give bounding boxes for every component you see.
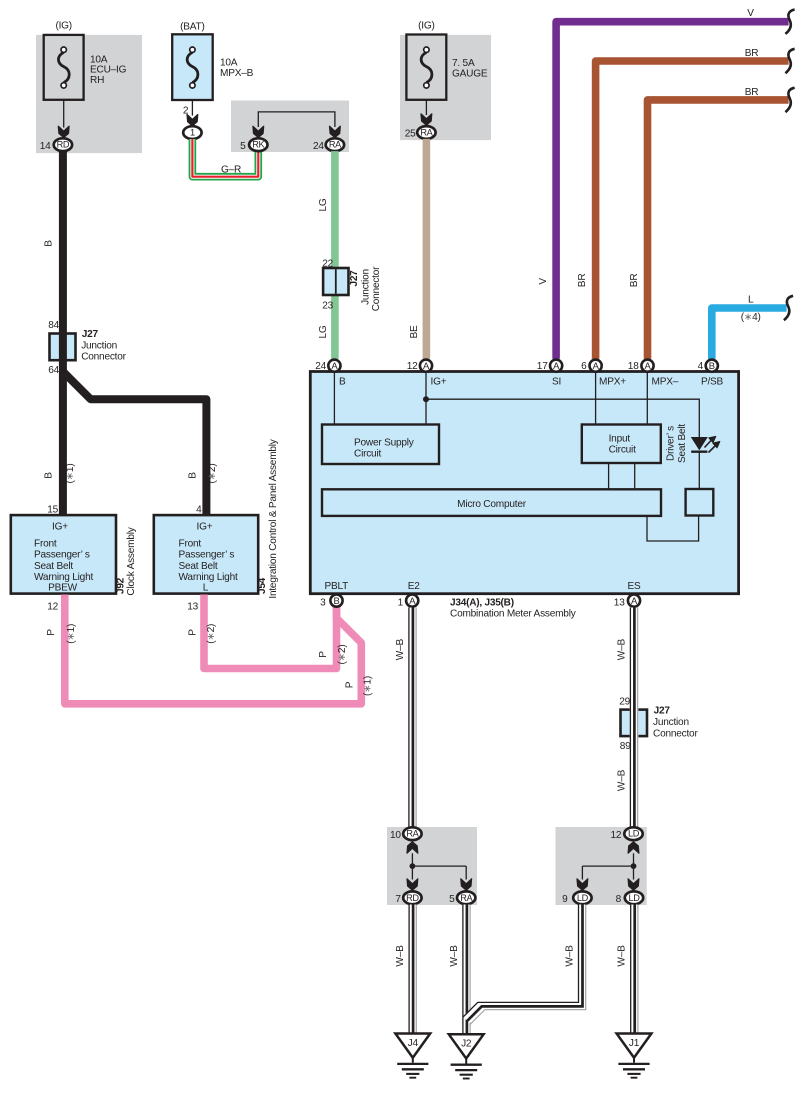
wire pin12 to power supply circuit	[425, 372, 427, 425]
svg-text:A: A	[593, 360, 600, 371]
wire BR (to pin 18 A)	[629, 87, 788, 359]
svg-text:12: 12	[611, 830, 622, 841]
svg-text:IG+: IG+	[197, 521, 213, 532]
wire input circuit to micro computer 1	[608, 463, 610, 490]
svg-text:25: 25	[405, 128, 416, 139]
wire fuse1 to pin 14	[58, 100, 69, 138]
svg-text:RA: RA	[406, 829, 419, 839]
pin 1	[183, 126, 201, 139]
combination meter assembly J34(A) J35(B)	[310, 372, 738, 594]
resistor box	[686, 489, 714, 516]
svg-text:P: P	[344, 681, 355, 688]
svg-text:W–B: W–B	[395, 945, 406, 967]
svg-text:8: 8	[616, 894, 622, 905]
pin 4 B	[698, 360, 718, 373]
pin 12 A	[407, 360, 432, 373]
svg-text:10A: 10A	[220, 58, 238, 69]
svg-text:W–B: W–B	[565, 945, 576, 967]
svg-text:MPX+: MPX+	[599, 376, 626, 387]
pin 24 A	[315, 360, 340, 373]
svg-text:(∗2): (∗2)	[207, 464, 218, 484]
svg-text:RK: RK	[252, 140, 265, 150]
svg-text:P: P	[46, 629, 57, 636]
pin 14 RD	[40, 138, 72, 152]
wire W-B (pin 5 to ground J2)	[449, 905, 470, 1035]
svg-text:LG: LG	[318, 198, 329, 211]
fuse ECU-IG RH 10A	[44, 21, 127, 100]
svg-text:RA: RA	[329, 140, 342, 150]
wire P (*2) (J54 pin 13 to PBLT)	[188, 595, 349, 669]
wire pin12 to split	[577, 842, 639, 890]
svg-text:Front: Front	[34, 538, 57, 549]
svg-text:4: 4	[196, 504, 202, 515]
wire input circuit to micro computer 2	[634, 463, 636, 490]
svg-text:14: 14	[40, 141, 51, 152]
svg-text:Warning Light: Warning Light	[34, 572, 93, 583]
svg-text:RA: RA	[420, 128, 433, 138]
svg-text:Connector: Connector	[81, 352, 126, 363]
wire fuse3 to pin 25	[421, 100, 432, 125]
wire W-B (E2 to pin 10)	[395, 608, 416, 827]
svg-text:10: 10	[390, 830, 401, 841]
integration control and panel assembly J54	[154, 438, 279, 598]
svg-text:(∗1): (∗1)	[65, 464, 76, 484]
svg-text:MPX–B: MPX–B	[220, 68, 254, 79]
wire L (*4) (to pin 4 B)	[712, 295, 787, 359]
junction block shading (LD relay block lower right)	[556, 827, 647, 905]
svg-text:Seat Belt: Seat Belt	[34, 561, 73, 572]
node junction dot IG+	[423, 396, 429, 402]
svg-text:L: L	[203, 583, 209, 594]
break symbol L	[784, 296, 793, 320]
node pin 15 label	[47, 504, 58, 515]
svg-text:6: 6	[581, 361, 587, 372]
svg-text:7: 7	[395, 894, 401, 905]
junction block shading (RK/RA connector)	[231, 101, 349, 153]
svg-text:Seat Belt: Seat Belt	[677, 424, 688, 463]
wire V (to pin 17 A)	[538, 8, 789, 359]
wire W-B (ES to pin 12 LD)	[617, 608, 638, 827]
svg-text:89: 89	[620, 741, 631, 752]
svg-text:LG: LG	[318, 325, 329, 338]
svg-text:Passenger’ s: Passenger’ s	[34, 550, 90, 561]
svg-text:SI: SI	[552, 376, 561, 387]
svg-text:A: A	[423, 360, 430, 371]
svg-text:P: P	[188, 629, 199, 636]
junction block shading (RA/RD relay block lower left)	[387, 827, 477, 905]
svg-text:13: 13	[614, 597, 625, 608]
svg-text:(∗2): (∗2)	[337, 645, 348, 665]
svg-text:17: 17	[537, 361, 548, 372]
node pin 4 label	[196, 504, 202, 515]
clock assembly J92	[11, 515, 137, 595]
svg-text:9: 9	[562, 894, 568, 905]
svg-text:P/SB: P/SB	[701, 376, 724, 387]
pin 17 A	[537, 360, 562, 373]
svg-text:5: 5	[449, 894, 455, 905]
wire W-B (pin 7 to ground J4)	[395, 905, 416, 1034]
svg-text:A: A	[409, 595, 416, 606]
svg-text:W–B: W–B	[449, 945, 460, 967]
svg-text:1: 1	[190, 128, 195, 138]
junction block shading (ECU-IG fuse)	[36, 35, 142, 153]
svg-text:E2: E2	[408, 581, 421, 592]
break symbol BR2	[785, 88, 794, 112]
break symbol BR1	[785, 49, 794, 73]
svg-text:7. 5A: 7. 5A	[452, 58, 475, 69]
svg-text:A: A	[644, 360, 651, 371]
svg-text:Driver’ s: Driver’ s	[665, 426, 676, 461]
wire pin6 to input circuit	[595, 372, 597, 425]
svg-text:A: A	[553, 360, 560, 371]
pin 13 A	[614, 595, 640, 609]
LED driver's seat belt warning light	[665, 424, 720, 463]
pin 10 RA	[390, 827, 422, 841]
svg-text:PBLT: PBLT	[324, 581, 348, 592]
wire fuse2 to pin 1	[183, 100, 198, 126]
svg-text:J27: J27	[349, 270, 360, 287]
svg-text:J27: J27	[82, 329, 99, 340]
junction connector J27 (84/64)	[48, 320, 126, 376]
svg-text:12: 12	[407, 361, 418, 372]
svg-text:A: A	[631, 595, 638, 606]
svg-text:3: 3	[320, 597, 326, 608]
svg-text:BE: BE	[409, 325, 420, 339]
svg-text:J27: J27	[654, 706, 671, 717]
svg-text:Warning Light: Warning Light	[179, 572, 238, 583]
wire B (pin 14 to J92 pin 15)	[44, 151, 76, 515]
ground J4	[395, 1034, 430, 1078]
svg-text:Combination Meter Assembly: Combination Meter Assembly	[450, 609, 577, 620]
svg-text:W–B: W–B	[617, 945, 628, 967]
svg-text:Front: Front	[179, 538, 202, 549]
svg-text:RD: RD	[57, 140, 70, 150]
svg-text:Connector: Connector	[371, 266, 382, 311]
wire pin18 to input circuit	[646, 372, 648, 425]
input circuit box	[582, 425, 661, 464]
svg-text:Junction: Junction	[361, 269, 372, 305]
node pin 13 label	[187, 602, 198, 613]
wire BR (to pin 6 A)	[577, 48, 788, 359]
svg-text:BR: BR	[745, 48, 759, 59]
svg-text:Seat Belt: Seat Belt	[179, 561, 218, 572]
wire P (*1) (J92 pin 12 to PBLT)	[46, 595, 374, 704]
svg-text:L: L	[748, 295, 754, 306]
svg-text:22: 22	[322, 258, 333, 269]
svg-text:PBEW: PBEW	[48, 583, 78, 594]
svg-text:LD: LD	[629, 893, 641, 903]
micro computer box	[322, 489, 661, 516]
wire B branch (to J54 pin 4)	[63, 372, 218, 516]
svg-text:Micro Computer: Micro Computer	[457, 499, 527, 510]
svg-text:(∗4): (∗4)	[741, 312, 761, 323]
svg-text:G–R: G–R	[221, 165, 241, 176]
junction connector J27 (22/23)	[322, 258, 382, 311]
power supply circuit box	[322, 425, 439, 465]
svg-text:(BAT): (BAT)	[180, 22, 205, 33]
svg-text:B: B	[44, 472, 55, 479]
svg-text:BR: BR	[577, 274, 588, 288]
svg-text:Power Supply: Power Supply	[354, 437, 415, 448]
fuse MPX-B 10A	[172, 22, 253, 100]
svg-text:IG+: IG+	[431, 376, 447, 387]
junction connector J27 (29/89)	[619, 696, 698, 752]
svg-text:BR: BR	[629, 274, 640, 288]
svg-text:13: 13	[187, 602, 198, 613]
svg-text:84: 84	[48, 320, 59, 331]
svg-text:Passenger’ s: Passenger’ s	[179, 550, 235, 561]
svg-text:J4: J4	[408, 1038, 419, 1049]
ground J2	[449, 1034, 484, 1078]
svg-text:J34(A), J35(B): J34(A), J35(B)	[450, 597, 514, 608]
pin 25 RA	[405, 126, 436, 139]
svg-text:(∗1): (∗1)	[66, 624, 77, 644]
svg-text:LD: LD	[577, 893, 589, 903]
svg-text:P: P	[318, 651, 329, 658]
svg-text:J1: J1	[629, 1038, 640, 1049]
wire IG+ to LED anode	[426, 399, 699, 437]
wire bracket RK to RA	[253, 112, 340, 138]
svg-text:(IG): (IG)	[55, 21, 72, 32]
svg-text:GAUGE: GAUGE	[452, 69, 488, 80]
pin 12 LD	[611, 827, 643, 841]
pin 18 A	[628, 360, 654, 373]
svg-text:1: 1	[398, 597, 404, 608]
svg-text:Input: Input	[609, 434, 631, 445]
svg-text:A: A	[331, 360, 338, 371]
svg-text:Junction: Junction	[81, 340, 117, 351]
pin 8 LD	[616, 891, 644, 905]
wire G-R (MPX-B to RK)	[192, 139, 258, 177]
pin 6 A	[581, 360, 602, 373]
svg-text:W–B: W–B	[617, 639, 628, 661]
svg-text:Integration Control & Panel As: Integration Control & Panel Assembly	[268, 438, 279, 598]
svg-text:5: 5	[240, 141, 246, 152]
wire W-B (pin 9 to ground J2)	[463, 905, 586, 1025]
svg-text:V: V	[538, 278, 549, 285]
svg-text:IG+: IG+	[52, 521, 68, 532]
svg-text:LD: LD	[628, 829, 640, 839]
pin 9 LD	[562, 891, 592, 905]
svg-text:BR: BR	[745, 87, 759, 98]
svg-text:29: 29	[619, 696, 630, 707]
svg-text:J54: J54	[257, 577, 268, 594]
svg-text:B: B	[44, 240, 55, 247]
svg-text:B: B	[339, 376, 346, 387]
wire pin10 to split	[407, 842, 472, 890]
svg-text:W–B: W–B	[395, 639, 406, 661]
svg-text:B: B	[188, 472, 199, 479]
svg-text:MPX–: MPX–	[652, 376, 679, 387]
svg-text:Connector: Connector	[653, 728, 698, 739]
svg-text:W–B: W–B	[617, 769, 628, 791]
svg-text:Clock Assembly: Clock Assembly	[126, 526, 137, 595]
svg-text:(IG): (IG)	[418, 21, 435, 32]
pin 24 RA	[313, 138, 344, 152]
label J34(A), J35(B) Combination Meter Assembly	[450, 597, 577, 619]
svg-text:(∗2): (∗2)	[206, 624, 217, 644]
pin 5 RK	[240, 138, 267, 152]
pin 3 B	[320, 595, 343, 609]
pin 5 RA	[449, 891, 475, 905]
svg-text:ES: ES	[627, 581, 641, 592]
svg-text:24: 24	[313, 141, 324, 152]
svg-text:RA: RA	[460, 893, 473, 903]
svg-text:Circuit: Circuit	[609, 445, 636, 456]
wire pin24 to power supply circuit	[333, 372, 335, 425]
svg-text:24: 24	[315, 361, 326, 372]
svg-text:64: 64	[48, 365, 59, 376]
svg-text:15: 15	[47, 504, 58, 515]
svg-text:V: V	[747, 8, 754, 19]
svg-text:(∗1): (∗1)	[362, 676, 373, 696]
break symbol V	[785, 10, 794, 34]
svg-text:B: B	[333, 595, 339, 606]
svg-text:B: B	[709, 360, 715, 371]
pin 7 RD	[395, 891, 421, 905]
fuse GAUGE 7.5A	[406, 21, 487, 100]
svg-text:RD: RD	[406, 893, 419, 903]
wire LG (RA to pin 24 A)	[318, 151, 335, 359]
svg-text:RH: RH	[90, 75, 104, 86]
wire micro computer to resistor	[647, 516, 699, 542]
junction block shading (GAUGE fuse)	[400, 35, 491, 140]
wire LED cathode to resistor	[698, 452, 700, 490]
svg-text:Junction: Junction	[653, 717, 689, 728]
svg-text:18: 18	[628, 361, 639, 372]
svg-text:Circuit: Circuit	[354, 449, 381, 460]
node pin 12 label	[47, 602, 58, 613]
wire BE (gauge fuse to pin 12 A)	[409, 139, 426, 359]
svg-text:4: 4	[698, 361, 704, 372]
svg-text:23: 23	[322, 300, 333, 311]
ground J1	[617, 1034, 652, 1078]
svg-text:12: 12	[47, 602, 58, 613]
pin 1 A	[398, 595, 419, 609]
wire W-B (pin 8 to ground J1)	[617, 905, 638, 1034]
svg-text:J2: J2	[461, 1039, 472, 1050]
